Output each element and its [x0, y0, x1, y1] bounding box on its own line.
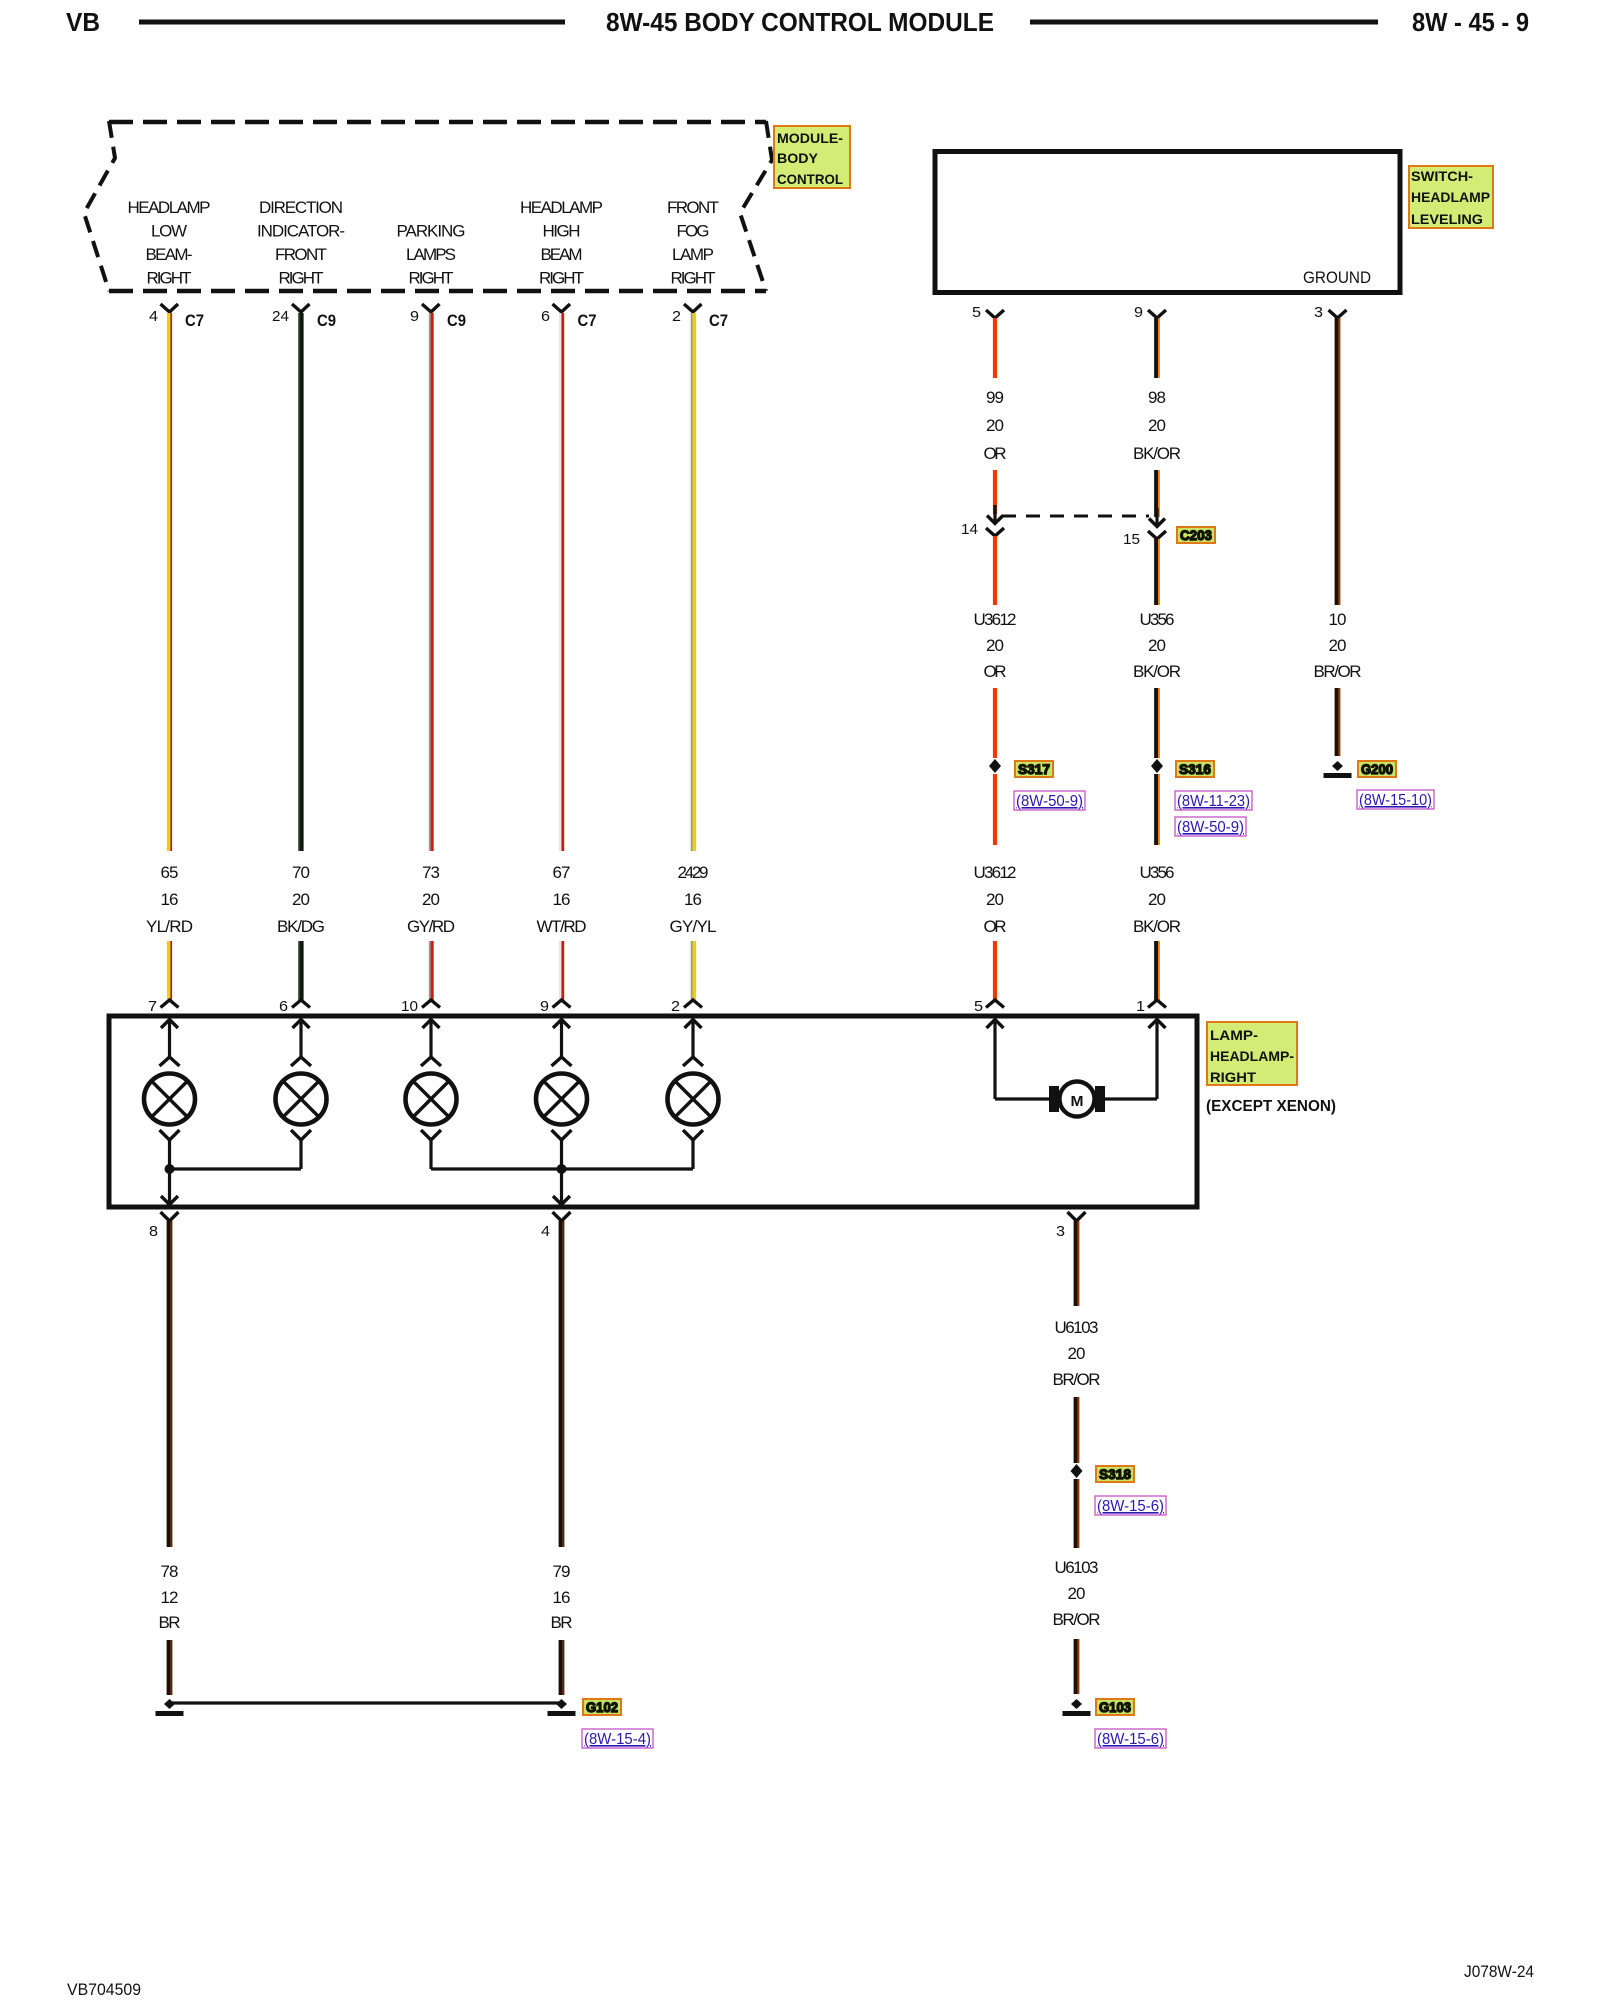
wire headlamp low beam - YL/RD lower [169, 941, 172, 1000]
svg-text:RIGHT: RIGHT [409, 269, 454, 288]
wire OR circuit 99 upper [993, 318, 997, 378]
internal wire motor right lead [1104, 1097, 1157, 1100]
hyperlink label S316 page ref (8W-11-23) [1175, 791, 1252, 810]
svg-text:BR/OR: BR/OR [1053, 1370, 1101, 1389]
connector half (lamp pin 4) [553, 1212, 571, 1221]
wire BK/OR circuit U356 to S316 [1156, 688, 1159, 758]
svg-text:BR: BR [551, 1613, 573, 1632]
connector C7 pin 4 [149, 304, 204, 330]
svg-text:20: 20 [1148, 890, 1166, 909]
svg-text:(8W-15-6): (8W-15-6) [1097, 1731, 1164, 1748]
svg-text:20: 20 [292, 890, 310, 909]
connector half (C203 pin 15 female half) [1148, 531, 1166, 539]
svg-text:G103: G103 [1099, 1699, 1131, 1715]
terminal connector below high beam bulb [552, 1130, 572, 1140]
wire stem below high beam bulb [560, 1140, 563, 1169]
internal wire arrow into pin above high beam bulb [553, 1019, 570, 1057]
wire headlamp high beam - WT/RD lower [560, 941, 563, 1000]
hyperlink label S318 page ref (8W-15-6) [1095, 1496, 1166, 1515]
wire BK/OR circuit 98 to C203 [1156, 470, 1159, 517]
svg-text:DIRECTION: DIRECTION [259, 198, 343, 217]
svg-text:(EXCEPT XENON): (EXCEPT XENON) [1206, 1098, 1336, 1115]
label SWITCH-HEADLAMP LEVELING highlight box [1409, 166, 1493, 228]
svg-text:10: 10 [1329, 610, 1347, 629]
lamp bulb parking [406, 1074, 457, 1125]
internal wire arrow into pin above front fog bulb [685, 1019, 702, 1057]
svg-text:16: 16 [684, 890, 702, 909]
header rule left [139, 20, 565, 25]
internal wire arrow into pin above parking bulb [423, 1019, 440, 1057]
internal wire arrow from motor to pin 5 [987, 1019, 1004, 1099]
module outline left zigzag edge [84, 121, 115, 291]
ground symbol G200 [1324, 761, 1352, 776]
svg-text:7: 7 [148, 998, 157, 1015]
connector half at lamp box pin (pin 2) [684, 1000, 702, 1008]
module pin name DIRECTION INDICATOR-FRONT RIGHT [257, 198, 345, 288]
svg-text:6: 6 [541, 308, 550, 325]
connector C9 pin 24 [272, 304, 336, 330]
svg-text:20: 20 [986, 416, 1004, 435]
connector C7 pin 6 [541, 304, 597, 330]
svg-text:BEAM: BEAM [541, 245, 583, 264]
switch S: SWITCH-HEADLAMP LEVELING box [935, 152, 1400, 293]
connector half (switch pin 3) [1329, 310, 1347, 318]
module pin name FRONT FOG LAMP RIGHT [667, 198, 719, 288]
svg-text:20: 20 [1068, 1344, 1086, 1363]
wire label circuit 65 16 YL/RD [146, 863, 193, 936]
svg-text:2429: 2429 [678, 863, 709, 882]
terminal connector above front fog bulb [683, 1057, 703, 1066]
svg-text:C9: C9 [447, 311, 466, 330]
svg-text:HIGH: HIGH [543, 222, 581, 241]
connector half (lamp pin 5 connector half) [986, 1000, 1004, 1008]
svg-text:70: 70 [292, 863, 310, 882]
ground symbol G102 [548, 1699, 576, 1714]
svg-text:LAMP-: LAMP- [1210, 1027, 1258, 1043]
wire stem below low beam bulb [168, 1140, 171, 1169]
wire direction indicator - BK/DG upper [299, 313, 302, 851]
module outline right zigzag edge [740, 121, 772, 291]
connector half at lamp box pin (pin 6) [292, 1000, 310, 1008]
hyperlink label S316 page ref (8W-50-9) [1175, 817, 1246, 836]
svg-text:INDICATOR-: INDICATOR- [257, 222, 345, 241]
svg-text:HEADLAMP: HEADLAMP [128, 198, 211, 217]
svg-text:9: 9 [540, 998, 549, 1015]
wire front fog lamp - GY/YL lower [692, 941, 695, 1000]
svg-text:U6103: U6103 [1055, 1558, 1099, 1577]
svg-text:U3612: U3612 [974, 863, 1017, 882]
wire stem below direction indicator bulb [299, 1140, 302, 1169]
wire label circuit 98 20 BK/OR [1133, 388, 1181, 463]
svg-text:RIGHT: RIGHT [671, 269, 716, 288]
hyperlink label G103 page ref (8W-15-6) [1095, 1729, 1166, 1748]
svg-text:MODULE-: MODULE- [777, 130, 843, 146]
svg-text:99: 99 [986, 388, 1004, 407]
connector half (lamp pin 1 connector half) [1148, 1000, 1166, 1008]
connector half at lamp box pin (pin 10) [422, 1000, 440, 1008]
svg-text:OR: OR [984, 662, 1007, 681]
wire label circuit 73 20 GY/RD [407, 863, 455, 936]
svg-text:1: 1 [1136, 998, 1145, 1015]
svg-text:BK/DG: BK/DG [277, 917, 325, 936]
internal wire arrow into pin above low beam bulb [161, 1019, 178, 1057]
svg-text:RIGHT: RIGHT [1210, 1069, 1256, 1085]
connector C9 pin 9 [410, 304, 466, 330]
wire OR circuit U3612 below C203 [993, 536, 997, 605]
hyperlink label G102 page ref (8W-15-4) [582, 1729, 653, 1748]
svg-text:16: 16 [553, 1588, 571, 1607]
connector half (switch pin 5) [986, 310, 1004, 318]
connector half at lamp box pin (pin 7) [161, 1000, 179, 1008]
wire OR circuit U3612 to lamp pin 5 [993, 941, 997, 1000]
wire BR/OR circuit U6103 to G103 [1076, 1639, 1079, 1694]
splice S317 [989, 759, 1001, 773]
svg-text:(8W-50-9): (8W-50-9) [1016, 793, 1083, 810]
svg-text:GY/YL: GY/YL [670, 917, 717, 936]
terminal connector above low beam bulb [160, 1057, 180, 1066]
wire BR/OR circuit U6103 below S318 [1076, 1479, 1079, 1548]
internal wire arrow from motor to pin 1 [1149, 1019, 1166, 1099]
svg-text:20: 20 [1068, 1584, 1086, 1603]
svg-text:BODY: BODY [777, 150, 819, 166]
terminal connector below front fog bulb [683, 1130, 703, 1140]
svg-text:G102: G102 [586, 1699, 618, 1715]
internal wire arrow into pin above direction indicator bulb [293, 1019, 310, 1057]
wire label circuit U6103 20 BR/OR lower [1053, 1558, 1101, 1629]
module U: BODY CONTROL MODULE dashed outline top edge [109, 120, 766, 125]
svg-text:(8W-15-10): (8W-15-10) [1359, 792, 1432, 809]
svg-text:OR: OR [984, 917, 1007, 936]
svg-text:(8W-11-23): (8W-11-23) [1177, 793, 1250, 810]
wire label circuit 79 16 BR [551, 1562, 573, 1632]
splice S318 [1071, 1464, 1083, 1478]
ground symbol G103 [1063, 1699, 1091, 1714]
wire headlamp high beam - WT/RD upper [560, 313, 563, 851]
label G200 reference [1358, 761, 1396, 777]
svg-text:U6103: U6103 [1055, 1318, 1099, 1337]
svg-text:20: 20 [1148, 636, 1166, 655]
wire label circuit 78 12 BR [159, 1562, 181, 1632]
internal wire with arrow to pin 4 [553, 1169, 570, 1205]
svg-text:FRONT: FRONT [275, 245, 327, 264]
svg-text:2: 2 [672, 308, 681, 325]
svg-text:M: M [1071, 1093, 1084, 1110]
wire label circuit U3612 20 OR lower [974, 863, 1017, 936]
connector C203 dashed tie line [1002, 515, 1149, 518]
svg-text:LAMP: LAMP [672, 245, 714, 264]
svg-text:J078W-24: J078W-24 [1464, 1962, 1534, 1981]
wire BR/OR circuit 10 to G200 [1337, 688, 1340, 756]
wire BK/OR circuit U356 below S316 [1156, 774, 1159, 845]
svg-text:SWITCH-: SWITCH- [1411, 168, 1473, 184]
connector half at lamp box pin (pin 9) [553, 1000, 571, 1008]
svg-text:LEVELING: LEVELING [1411, 211, 1483, 227]
wire direction indicator - BK/DG lower [299, 941, 302, 1000]
svg-text:G200: G200 [1361, 761, 1393, 777]
svg-text:6: 6 [279, 998, 288, 1015]
svg-text:20: 20 [422, 890, 440, 909]
wire BR/OR circuit U6103 to S318 [1076, 1397, 1079, 1463]
label S318 reference [1096, 1466, 1134, 1482]
wire label circuit 99 20 OR [984, 388, 1007, 463]
wire BR circuit 78 to G102 [169, 1640, 172, 1695]
svg-text:HEADLAMP-: HEADLAMP- [1210, 1048, 1294, 1064]
header rule right [1030, 20, 1378, 25]
svg-text:GY/RD: GY/RD [407, 917, 455, 936]
wire label circuit 2429 16 GY/YL [670, 863, 717, 936]
svg-text:16: 16 [161, 890, 179, 909]
svg-text:79: 79 [553, 1562, 571, 1581]
svg-text:65: 65 [161, 863, 179, 882]
svg-text:16: 16 [553, 890, 571, 909]
svg-text:78: 78 [161, 1562, 179, 1581]
wire front fog lamp - GY/YL upper [692, 313, 695, 851]
label S317 reference [1015, 761, 1053, 777]
svg-text:10: 10 [401, 998, 418, 1015]
svg-text:S317: S317 [1018, 761, 1050, 777]
label G103 reference [1096, 1699, 1134, 1715]
svg-text:LOW: LOW [151, 222, 187, 241]
svg-text:LAMPS: LAMPS [406, 245, 456, 264]
ground bus wire to G102 [170, 1701, 562, 1704]
label S316 reference [1176, 761, 1214, 777]
svg-text:5: 5 [974, 998, 983, 1015]
svg-text:U3612: U3612 [974, 610, 1017, 629]
wire BK/OR circuit 98 upper [1156, 318, 1159, 378]
wire BR circuit 79 to G102 [561, 1640, 564, 1695]
wire stem below parking bulb [429, 1140, 432, 1169]
connector half (C203 pin 14 female half) [986, 528, 1004, 536]
ground symbol G102 left leg [156, 1699, 184, 1714]
svg-text:24: 24 [272, 308, 289, 325]
module outline bottom edge [109, 289, 766, 294]
terminal connector above high beam bulb [552, 1057, 572, 1066]
hyperlink label S317 page ref (8W-50-9) [1014, 791, 1085, 810]
wire label circuit 10 20 BR/OR [1314, 610, 1362, 681]
svg-text:C7: C7 [578, 311, 597, 330]
label G102 reference [583, 1699, 621, 1715]
label LAMP-HEADLAMP-RIGHT highlight box [1207, 1022, 1297, 1085]
label C203 reference [1177, 527, 1215, 543]
junction node at low beam bus [165, 1164, 175, 1174]
svg-text:C7: C7 [185, 311, 204, 330]
connector C203 pin 15 male arrow [1149, 508, 1165, 527]
svg-text:U356: U356 [1140, 863, 1175, 882]
svg-text:20: 20 [1148, 416, 1166, 435]
svg-text:20: 20 [986, 890, 1004, 909]
wire label circuit U356 20 BK/OR [1133, 610, 1181, 681]
svg-text:PARKING: PARKING [397, 222, 466, 241]
terminal connector below parking bulb [421, 1130, 441, 1140]
wire stem below front fog bulb [691, 1140, 694, 1169]
svg-text:12: 12 [161, 1588, 179, 1607]
terminal connector below direction indicator bulb [291, 1130, 311, 1140]
svg-text:8W-45 BODY CONTROL MODULE: 8W-45 BODY CONTROL MODULE [606, 7, 994, 37]
terminal connector above parking bulb [421, 1057, 441, 1066]
svg-text:C9: C9 [317, 311, 336, 330]
svg-text:15: 15 [1123, 531, 1140, 548]
lamp assembly box LAMP-HEADLAMP-RIGHT [109, 1016, 1197, 1207]
svg-text:BK/OR: BK/OR [1133, 444, 1181, 463]
internal ground bus wire lamps 1-2 [170, 1167, 302, 1170]
svg-text:3: 3 [1056, 1223, 1065, 1240]
svg-text:RIGHT: RIGHT [539, 269, 584, 288]
svg-text:U356: U356 [1140, 610, 1175, 629]
connector half (lamp pin 8) [161, 1212, 179, 1221]
svg-text:S318: S318 [1099, 1466, 1131, 1482]
svg-text:14: 14 [961, 521, 978, 538]
wire label circuit 67 16 WT/RD [537, 863, 587, 936]
splice S316 [1151, 759, 1163, 773]
wire BR circuit 79 upper [561, 1221, 564, 1547]
label MODULE-BODY CONTROL highlight box [774, 126, 850, 188]
svg-text:FOG: FOG [677, 222, 710, 241]
hyperlink label G200 page ref (8W-15-10) [1357, 790, 1434, 809]
connector C7 pin 2 [672, 304, 728, 330]
motor M headlamp leveling [1049, 1082, 1105, 1117]
svg-text:9: 9 [1134, 304, 1143, 321]
lamp bulb direction indicator [276, 1074, 327, 1125]
svg-text:8: 8 [149, 1223, 158, 1240]
svg-text:BR/OR: BR/OR [1053, 1610, 1101, 1629]
svg-text:RIGHT: RIGHT [147, 269, 192, 288]
svg-text:73: 73 [422, 863, 440, 882]
terminal connector above direction indicator bulb [291, 1057, 311, 1066]
svg-text:8W - 45 - 9: 8W - 45 - 9 [1412, 7, 1529, 37]
wire OR circuit U3612 to S317 [993, 688, 997, 758]
connector half (lamp pin 3) [1068, 1212, 1086, 1221]
svg-text:BEAM-: BEAM- [146, 245, 193, 264]
wire headlamp low beam - YL/RD upper [169, 313, 172, 851]
terminal connector below low beam bulb [160, 1130, 180, 1140]
svg-text:GROUND: GROUND [1303, 268, 1371, 287]
svg-text:VB704509: VB704509 [67, 1980, 141, 1999]
wire OR circuit 99 to C203 [993, 470, 997, 514]
module pin name HEADLAMP LOW BEAM-RIGHT [128, 198, 211, 288]
svg-text:BK/OR: BK/OR [1133, 662, 1181, 681]
svg-text:HEADLAMP: HEADLAMP [520, 198, 603, 217]
junction node at high beam bus [557, 1164, 567, 1174]
svg-text:(8W-50-9): (8W-50-9) [1177, 819, 1244, 836]
svg-text:RIGHT: RIGHT [279, 269, 324, 288]
lamp bulb front fog [668, 1074, 719, 1125]
svg-text:9: 9 [410, 308, 419, 325]
wire BK/OR circuit U356 to lamp pin 1 [1156, 941, 1159, 1000]
wire label circuit U3612 20 OR [974, 610, 1017, 681]
svg-text:FRONT: FRONT [667, 198, 719, 217]
svg-text:WT/RD: WT/RD [537, 917, 587, 936]
wire BR circuit 78 upper [169, 1221, 172, 1547]
svg-text:20: 20 [1329, 636, 1347, 655]
module pin name PARKING LAMPS RIGHT [397, 222, 466, 288]
lamp bulb high beam [536, 1074, 587, 1125]
wire label circuit U356 20 BK/OR lower [1133, 863, 1181, 936]
svg-text:98: 98 [1148, 388, 1166, 407]
svg-text:(8W-15-6): (8W-15-6) [1097, 1498, 1164, 1515]
internal wire with arrow to pin 8 [161, 1169, 178, 1205]
svg-text:4: 4 [541, 1223, 550, 1240]
internal ground bus wire lamps 3-5 [431, 1167, 693, 1170]
svg-text:VB: VB [66, 7, 100, 37]
connector half (switch pin 9) [1148, 310, 1166, 318]
svg-text:CONTROL: CONTROL [777, 171, 843, 187]
svg-text:20: 20 [986, 636, 1004, 655]
svg-text:C7: C7 [709, 311, 728, 330]
svg-text:OR: OR [984, 444, 1007, 463]
module pin name HEADLAMP HIGH BEAM RIGHT [520, 198, 603, 288]
svg-text:C203: C203 [1180, 527, 1212, 543]
connector C203 pin 14 male arrow [987, 505, 1003, 524]
wire label circuit 70 20 BK/DG [277, 863, 325, 936]
wire OR circuit U3612 below S317 [993, 774, 997, 845]
svg-text:5: 5 [972, 304, 981, 321]
svg-text:3: 3 [1314, 304, 1323, 321]
wire BR/OR circuit U6103 upper [1076, 1221, 1079, 1306]
svg-text:67: 67 [553, 863, 571, 882]
svg-text:YL/RD: YL/RD [146, 917, 193, 936]
wire BR/OR circuit 10 from switch ground [1337, 318, 1340, 605]
svg-text:HEADLAMP: HEADLAMP [1411, 189, 1490, 205]
svg-text:(8W-15-4): (8W-15-4) [584, 1731, 651, 1748]
wire label circuit U6103 20 BR/OR [1053, 1318, 1101, 1389]
lamp bulb low beam [144, 1074, 195, 1125]
wire parking lamps - GY/RD lower [430, 941, 432, 1000]
svg-text:BR: BR [159, 1613, 181, 1632]
wire BK/OR circuit U356 below C203 [1156, 539, 1159, 605]
svg-text:2: 2 [671, 998, 680, 1015]
svg-text:BK/OR: BK/OR [1133, 917, 1181, 936]
svg-text:S316: S316 [1179, 761, 1211, 777]
svg-text:BR/OR: BR/OR [1314, 662, 1362, 681]
internal wire motor left lead [995, 1097, 1050, 1100]
wire parking lamps - GY/RD upper [430, 313, 432, 851]
svg-text:4: 4 [149, 308, 158, 325]
